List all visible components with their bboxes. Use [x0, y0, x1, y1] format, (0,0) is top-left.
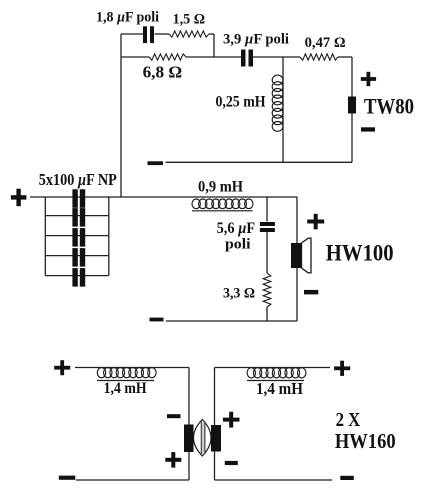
svg-text:1,5 Ω: 1,5 Ω [173, 11, 206, 27]
svg-text:HW100: HW100 [326, 241, 394, 267]
svg-text:0,47 Ω: 0,47 Ω [305, 35, 346, 51]
svg-text:5,6 µF: 5,6 µF [217, 219, 256, 237]
svg-text:1,8 µF poli: 1,8 µF poli [96, 10, 159, 26]
svg-text:2 X: 2 X [336, 409, 361, 431]
svg-text:poli: poli [225, 236, 251, 252]
svg-text:3,9 µF poli: 3,9 µF poli [223, 32, 289, 48]
svg-text:0,25 mH: 0,25 mH [216, 94, 266, 111]
svg-text:TW80: TW80 [364, 94, 414, 119]
svg-text:1,4 mH: 1,4 mH [104, 380, 147, 397]
svg-text:0,9 mH: 0,9 mH [198, 178, 243, 195]
svg-text:3,3 Ω: 3,3 Ω [223, 286, 255, 302]
svg-text:5x100 µF NP: 5x100 µF NP [39, 170, 117, 189]
svg-text:HW160: HW160 [335, 429, 396, 453]
svg-text:1,4 mH: 1,4 mH [256, 379, 303, 398]
svg-text:6,8 Ω: 6,8 Ω [143, 63, 183, 82]
